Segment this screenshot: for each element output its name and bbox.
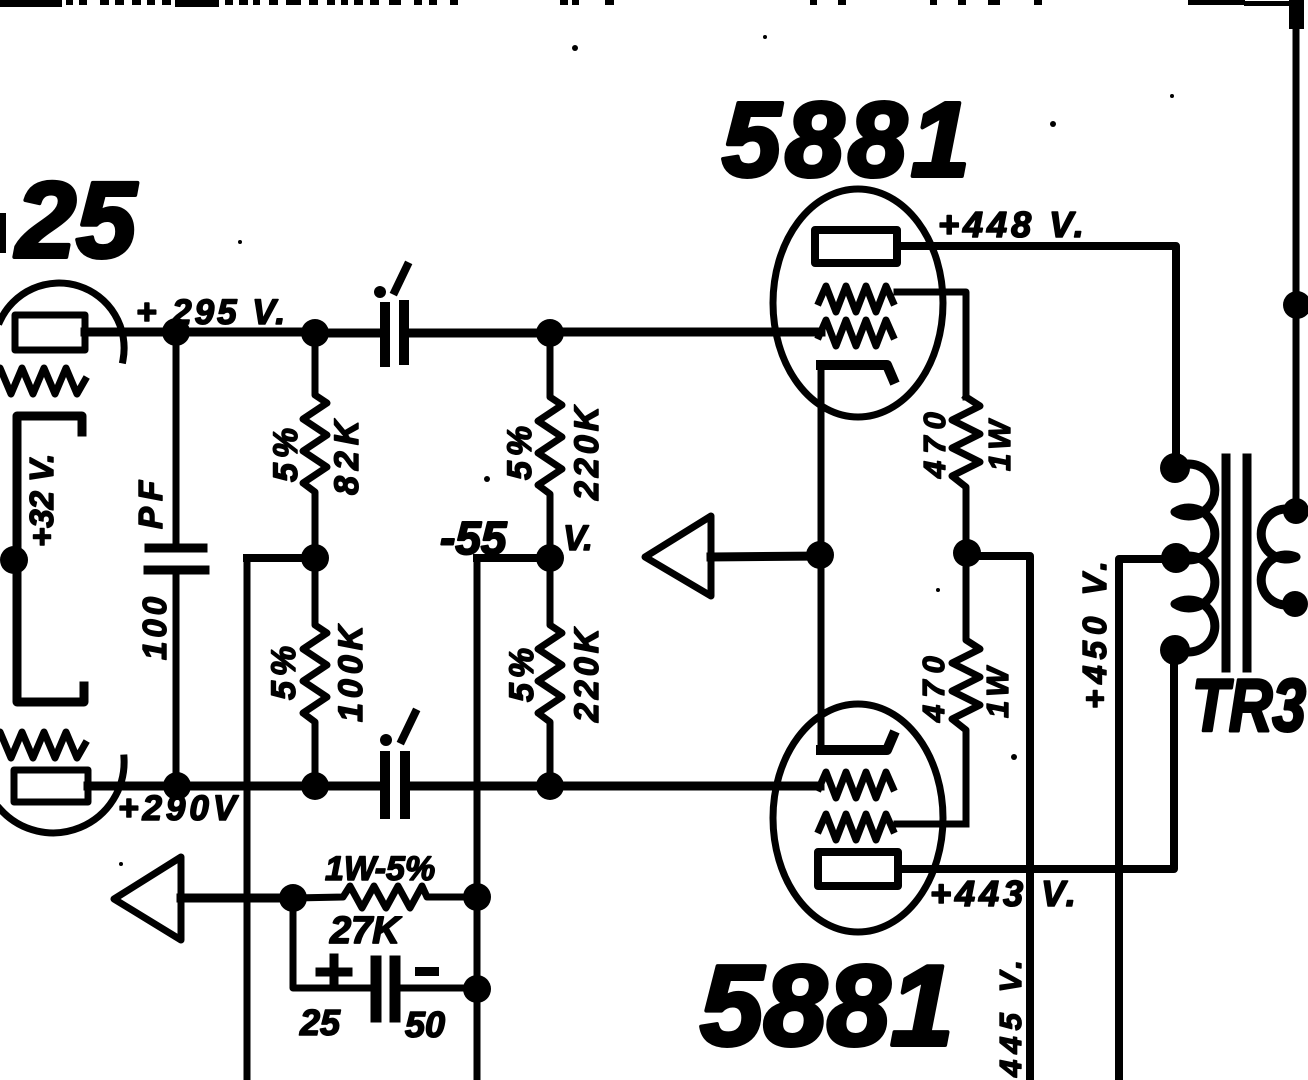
node lower cap left [163,772,191,800]
capacitor C .1 lower label [380,734,392,746]
tube V1 grid lower zigzag [0,732,85,758]
svg-text:5%: 5% [503,643,541,702]
svg-text:220K: 220K [568,403,606,501]
tube V2 screen zigzag [819,286,893,312]
wire arrow to cathode node [711,556,820,557]
node 82K/100K junction [301,544,329,572]
node -55V [536,544,564,572]
svg-text:1W-5%: 1W-5% [325,850,435,888]
svg-text:5%: 5% [267,423,305,482]
tube V3 plate [818,852,898,886]
svg-text:27K: 27K [329,910,402,952]
capacitor 100PF lead down [173,332,180,544]
transformer TR3 primary center tap node [1161,543,1191,573]
svg-text:25: 25 [14,159,138,280]
label fragment left edge [0,213,6,253]
resistor R 470 lower [952,553,980,824]
transformer TR3 secondary top node [1283,498,1308,524]
node 27K right [463,883,491,911]
scan noise specks [119,35,1243,866]
svg-text:470: 470 [916,649,951,723]
svg-text:+443 V.: +443 V. [930,873,1080,914]
capacitor C 25/50 plates [376,961,395,1017]
wire junction to feedback line [247,554,315,562]
wire cathode node to V3 cathode [818,555,825,750]
transformer TR3 secondary bottom node [1282,591,1308,617]
tube V3 control grid zigzag [819,772,893,798]
node +295V at cap [162,318,190,346]
svg-text:+450 V.: +450 V. [1076,555,1113,709]
svg-text:470: 470 [917,405,952,479]
wire V2 screen to 470 [897,292,966,397]
wire 220K node to V2 grid [564,328,821,337]
wire V3 plate to transformer bottom [898,655,1174,869]
svg-text:PF: PF [132,475,169,529]
arrow left feedback [114,857,181,940]
capacitor C .1 upper plates [385,305,404,362]
wire 470 junction to +445V line [967,556,1030,1080]
node 470 junction [953,539,981,567]
svg-text:1W: 1W [982,417,1017,472]
tube V3 envelope [773,704,943,932]
wire center tap to +450V line [1119,559,1176,1080]
svg-text:1W: 1W [980,664,1015,719]
node V1 cathode [0,546,28,574]
svg-text:5%: 5% [265,641,303,700]
transformer TR3 primary winding lower [1175,556,1215,652]
wire -55V node to bias line [477,554,550,562]
wire feedback vertical to bottom [244,558,251,1080]
capacitor 100PF lead to lower bus [173,574,180,786]
svg-text:TR3: TR3 [1192,664,1306,747]
label - (cap polarity) [415,967,439,976]
wire 220K bottom to V3 grid [564,782,820,791]
svg-text:5881: 5881 [700,943,954,1070]
svg-text:100K: 100K [332,621,370,722]
resistor R 27K [293,886,477,908]
tube V2 envelope [773,189,943,417]
transformer TR3 primary winding upper [1175,464,1215,560]
label + (cap polarity) [320,958,348,986]
resistor R 100K [303,558,327,786]
tube V3 screen zigzag [819,814,893,840]
tube V1 grid upper zigzag [0,368,85,394]
svg-text:+290V: +290V [118,789,240,828]
svg-text:5881: 5881 [722,81,974,199]
arrow right feedback [645,516,711,596]
transformer TR3 primary top node [1160,453,1190,483]
node 27K left [279,884,307,912]
resistor R 470 upper [952,397,980,553]
svg-text:+ 295 V.: + 295 V. [136,293,288,332]
tube V1 cathode bracket [17,416,84,702]
wire 82K node to cap [329,329,380,338]
svg-text:100: 100 [136,593,173,660]
tube V1 envelope top arc [0,283,124,360]
node 82K top [301,319,329,347]
transformer TR3 primary bottom node [1160,635,1190,665]
svg-text:220K: 220K [568,625,606,723]
node right edge junction [1283,291,1308,319]
wire cap to 220K node [409,329,551,338]
tube V3 cathode [821,736,893,750]
svg-text:50: 50 [405,1004,445,1045]
node 220K lower bottom [536,772,564,800]
svg-text:+448 V.: +448 V. [938,204,1088,245]
svg-text:+445 V.: +445 V. [993,954,1028,1080]
svg-text:5%: 5% [501,421,539,480]
node cap right on bias line [463,975,491,1003]
wire arrow to 27K [181,894,293,903]
resistor R 220K upper [538,333,562,548]
tube V2 plate [815,230,897,263]
resistor R 220K lower [538,558,562,786]
tube V2 cathode [821,365,893,379]
wire V2 cathode down [818,368,825,555]
wire V2 plate to transformer top [897,246,1176,460]
wire V1 upper plate to +295V node [85,328,316,337]
svg-text:82K: 82K [328,415,366,495]
resistor R 82K [303,333,327,558]
transformer TR3 core [1226,458,1247,668]
tube V2 control grid zigzag [819,320,893,346]
svg-text:+32 V.: +32 V. [23,454,60,547]
wire bias vertical to bottom [474,558,481,1080]
wire 27K left node down to cap [293,898,369,988]
tube V1 plate upper [15,315,85,350]
svg-text:25: 25 [299,1002,341,1043]
capacitor C .1 lower plates [385,756,405,814]
capacitor C .1 upper label [374,286,386,298]
node 220K upper top [536,319,564,347]
top edge clipped text [0,0,1304,29]
wire right border vertical [1293,2,1300,511]
capacitor 100PF plates [148,548,205,570]
node 100K bottom [301,772,329,800]
wire 100K node to lower cap [316,782,380,791]
node cathodes junction [806,541,834,569]
wire cap to bias line [401,985,477,992]
tube V1 plate lower [14,770,88,802]
transformer TR3 secondary winding [1261,509,1296,605]
wire V3 screen to 470 [897,821,966,828]
tube V1 envelope bottom arc [0,758,124,833]
wire lower cap to 220K bottom [410,782,551,791]
wire V1 lower plate to +290V node [88,782,316,791]
svg-text:V.: V. [563,519,593,558]
